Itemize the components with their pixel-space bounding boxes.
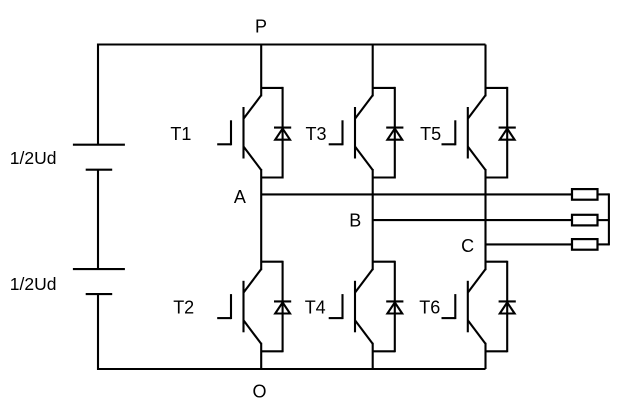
svg-text:T6: T6 <box>419 298 440 318</box>
diode D1 <box>274 128 291 140</box>
wire T4 emitter to bus O <box>372 343 374 369</box>
wire T2 emitter to bus O <box>260 343 262 369</box>
svg-text:1/2Ud: 1/2Ud <box>10 274 57 294</box>
wire T6 diode branch <box>486 261 508 353</box>
wire T5 collector from bus P <box>484 45 486 97</box>
wire leg A midpoint <box>260 169 262 270</box>
svg-text:C: C <box>461 236 474 256</box>
transistor T3 <box>329 95 373 170</box>
svg-text:O: O <box>252 382 266 402</box>
svg-text:T2: T2 <box>173 298 194 318</box>
node C wire to load <box>486 243 574 245</box>
wire right bus joining loads <box>608 193 610 245</box>
wire T4 diode branch <box>373 261 395 353</box>
wire T3 diode branch <box>373 87 395 179</box>
diode D2 <box>274 301 291 313</box>
svg-text:1/2Ud: 1/2Ud <box>10 148 57 168</box>
resistor R2 <box>572 215 598 226</box>
resistor R1 <box>572 189 598 200</box>
svg-text:T3: T3 <box>306 124 327 144</box>
transistor T2 <box>217 269 261 344</box>
wire T2 diode branch <box>261 261 282 353</box>
svg-text:T5: T5 <box>420 124 441 144</box>
capacitor C1 <box>73 145 125 170</box>
transistor T4 <box>329 269 373 344</box>
wire T5 diode branch <box>486 87 508 179</box>
wire between capacitors <box>97 170 99 269</box>
resistor R3 <box>572 239 598 250</box>
wire leg C midpoint <box>484 169 486 270</box>
wire T1 collector from bus P <box>260 45 262 97</box>
transistor T5 <box>442 95 486 170</box>
svg-text:T1: T1 <box>170 124 191 144</box>
svg-text:P: P <box>255 16 267 36</box>
diode D4 <box>386 301 403 313</box>
wire T3 collector from bus P <box>372 45 374 97</box>
diode D5 <box>499 128 516 140</box>
wire bottom bus O <box>97 368 486 370</box>
wire R3 to right bus <box>597 243 609 245</box>
wire T6 emitter to bus O <box>484 343 486 369</box>
diode D6 <box>499 301 516 313</box>
diode D3 <box>386 128 403 140</box>
transistor T6 <box>442 269 486 344</box>
svg-text:T4: T4 <box>305 298 326 318</box>
wire R2 to right bus <box>597 219 609 221</box>
wire leg B midpoint <box>372 169 374 270</box>
svg-text:B: B <box>349 211 361 231</box>
wire left rail top segment <box>97 44 99 145</box>
wire T1 diode branch <box>261 87 282 179</box>
wire left rail bottom segment <box>97 294 99 370</box>
wire R1 to right bus <box>597 193 609 195</box>
capacitor C2 <box>73 269 125 294</box>
wire top bus P <box>97 43 486 45</box>
node A wire to load <box>261 193 573 195</box>
transistor T1 <box>217 95 261 170</box>
node B wire to load <box>373 219 573 221</box>
svg-text:A: A <box>234 187 246 207</box>
